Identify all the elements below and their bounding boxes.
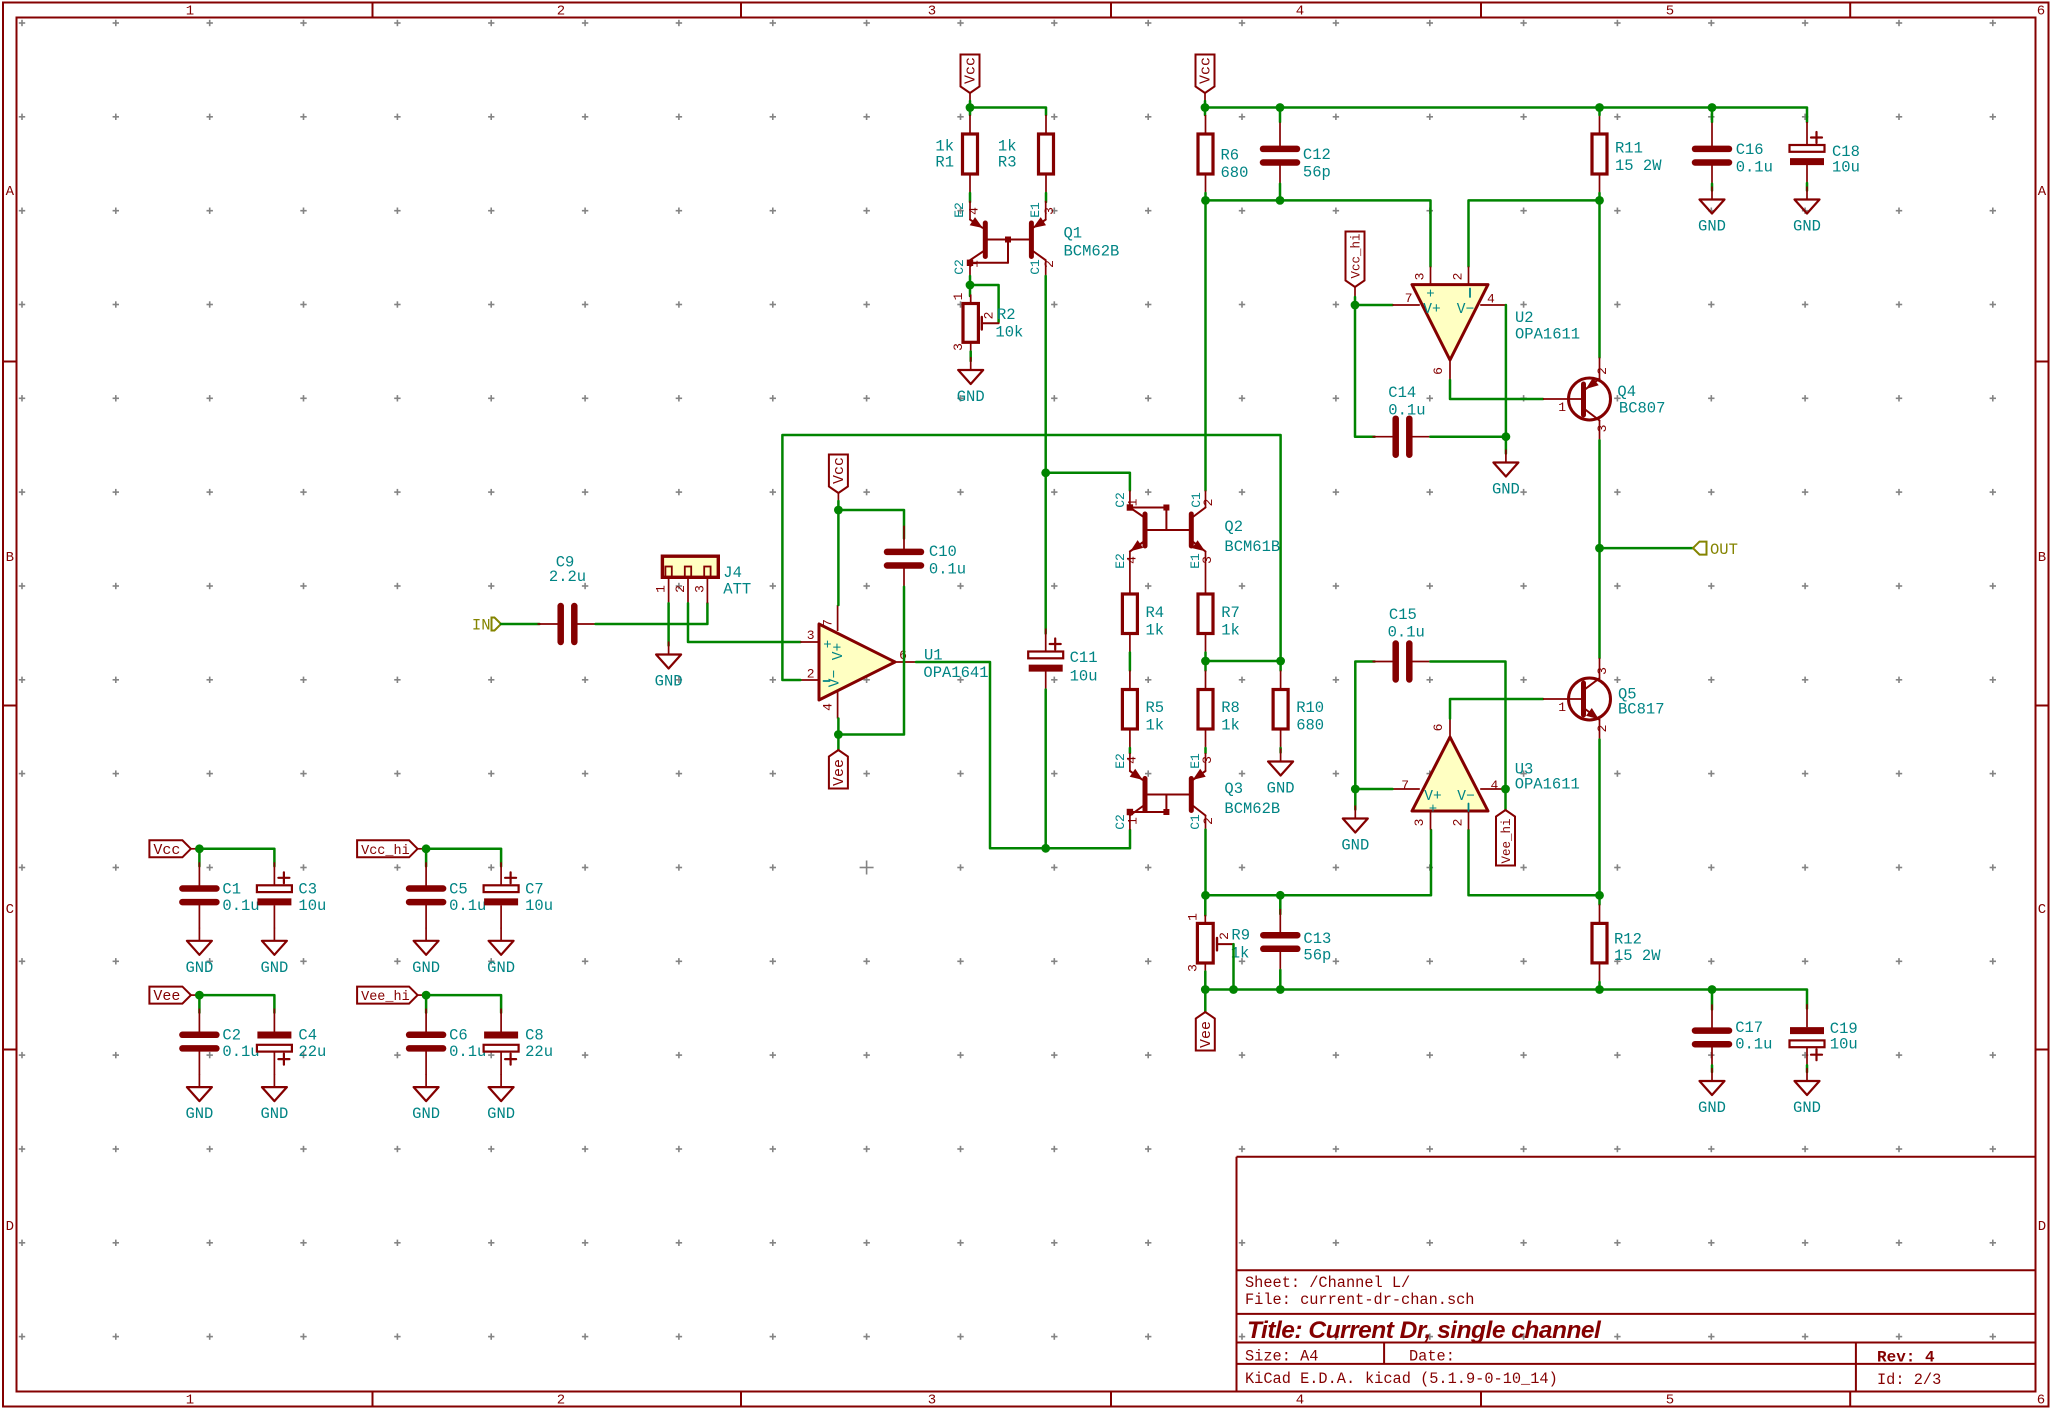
- resistor R8 1k: [1205, 671, 1207, 690]
- svg-text:2: 2: [1595, 725, 1610, 733]
- svg-text:C12: C12: [1303, 146, 1331, 164]
- wire Vcc_hi to U2 pin7: [1355, 297, 1393, 305]
- wire R9 bottom to rail: [1204, 972, 1207, 990]
- power flag Vcc_hi: [1346, 232, 1365, 288]
- wire U2 pin2 to R11 bottom: [1469, 200, 1600, 266]
- transistor Q4 BC807: [1569, 378, 1611, 420]
- svg-text:22u: 22u: [298, 1043, 326, 1061]
- op-amp U1 OPA1641: [819, 624, 895, 700]
- wire C11 bottom to output rail: [1044, 690, 1047, 849]
- node U2 pin7 junction: [1351, 301, 1360, 310]
- svg-text:C1: C1: [222, 880, 241, 898]
- node lower rail at Q3: [1201, 891, 1210, 900]
- wire IN to C9: [501, 623, 540, 626]
- svg-text:C13: C13: [1303, 930, 1331, 948]
- svg-text:2: 2: [1451, 819, 1466, 827]
- svg-text:0.1u: 0.1u: [929, 561, 966, 579]
- node lower rail C13: [1276, 891, 1285, 900]
- svg-text:Vcc: Vcc: [1198, 57, 1215, 84]
- ground below C6: [425, 1074, 427, 1087]
- capacitor C8 22u (polarized): [500, 1009, 502, 1032]
- ground below C18: [1806, 183, 1809, 191]
- svg-text:GND: GND: [1698, 1099, 1726, 1117]
- svg-text:56p: 56p: [1303, 164, 1331, 182]
- svg-text:V−: V−: [1457, 789, 1474, 805]
- svg-text:3: 3: [1413, 273, 1428, 281]
- svg-text:OPA1641: OPA1641: [923, 664, 988, 682]
- svg-text:Vee: Vee: [831, 759, 848, 786]
- svg-text:GND: GND: [260, 959, 288, 977]
- wire R3 to Q1 emitter E1: [1045, 193, 1048, 202]
- svg-text:R8: R8: [1221, 699, 1240, 717]
- node Vee_hi junction: [422, 991, 431, 1000]
- wire R1 to Q1 emitter E2: [969, 193, 972, 202]
- svg-text:1k: 1k: [1221, 717, 1240, 735]
- svg-text:GND: GND: [1341, 837, 1369, 855]
- capacitor C15 0.1u: [1373, 661, 1394, 663]
- wire U2 output to Q4 base: [1450, 380, 1543, 399]
- svg-text:5: 5: [1666, 1393, 1674, 1409]
- svg-text:C11: C11: [1070, 649, 1098, 667]
- wire U3 output to Q5 base: [1450, 699, 1543, 719]
- wire U1 output to C11 column: [916, 662, 1130, 848]
- svg-text:0.1u: 0.1u: [222, 897, 259, 915]
- node Vee junction: [195, 991, 204, 1000]
- svg-text:Q3: Q3: [1224, 780, 1243, 798]
- capacitor C17 0.1u: [1711, 990, 1714, 1010]
- svg-text:4: 4: [1487, 292, 1495, 307]
- power flag Vcc (driver stage): [1196, 55, 1215, 94]
- svg-text:6: 6: [1431, 367, 1446, 375]
- svg-text:15 2W: 15 2W: [1614, 947, 1661, 965]
- svg-text:GND: GND: [655, 673, 683, 691]
- wire R5 to Q3 emitter E2: [1129, 748, 1132, 753]
- capacitor C14 0.1u: [1355, 305, 1375, 437]
- svg-text:Vcc: Vcc: [831, 457, 848, 484]
- svg-text:Vee: Vee: [1198, 1021, 1215, 1048]
- power flag Vcc (U1): [829, 455, 848, 494]
- resistor R11 15 2W: [1599, 115, 1601, 134]
- ground below C16: [1711, 184, 1714, 191]
- svg-text:R7: R7: [1221, 604, 1240, 622]
- power flag Vee (U1): [829, 750, 848, 789]
- svg-text:0.1u: 0.1u: [222, 1043, 259, 1061]
- svg-text:2: 2: [1451, 273, 1466, 281]
- ground below J4: [668, 642, 670, 655]
- wire U1 feedback to inverting input: [782, 435, 1280, 680]
- wire C14 to pin4 node: [1430, 435, 1506, 438]
- ground below C1: [198, 928, 200, 941]
- op-amp U2 OPA1611: [1412, 285, 1488, 360]
- svg-text:C16: C16: [1736, 141, 1764, 159]
- wire C10 bottom to Vee node: [838, 587, 904, 735]
- svg-text:6: 6: [2037, 1393, 2045, 1409]
- capacitor C13 56p: [1279, 895, 1282, 914]
- svg-text:R6: R6: [1221, 147, 1240, 165]
- svg-text:GND: GND: [260, 1105, 288, 1123]
- svg-text:4: 4: [1296, 4, 1304, 20]
- capacitor C2 0.1u: [198, 1009, 200, 1033]
- svg-text:+: +: [1426, 287, 1434, 303]
- svg-text:680: 680: [1296, 717, 1324, 735]
- node bottom rail junctions: [1201, 985, 1210, 994]
- ground below C19: [1806, 1065, 1809, 1072]
- svg-text:2: 2: [673, 585, 688, 593]
- wire R6/C12 bottom rail to U2 pin3: [1204, 193, 1207, 200]
- capacitor C4 22u (polarized): [273, 1009, 275, 1032]
- wire R7 to mid rail: [1204, 653, 1207, 671]
- ground below C7: [500, 928, 502, 941]
- svg-text:3: 3: [928, 1393, 936, 1409]
- svg-text:E2: E2: [952, 202, 967, 218]
- svg-text:Vcc_hi: Vcc_hi: [361, 844, 410, 859]
- svg-text:R12: R12: [1614, 931, 1642, 949]
- wire Q5 emitter down to R12 rail: [1598, 740, 1601, 896]
- svg-text:1: 1: [186, 1393, 194, 1409]
- svg-text:B: B: [6, 550, 14, 566]
- svg-text:1: 1: [654, 585, 669, 593]
- wire U1 pin4 to Vee: [837, 719, 840, 751]
- capacitor C19 10u (polarized): [1806, 1004, 1808, 1027]
- svg-text:56p: 56p: [1303, 947, 1331, 965]
- svg-text:Vee_hi: Vee_hi: [1500, 818, 1514, 863]
- svg-text:Q4: Q4: [1617, 383, 1636, 401]
- svg-text:2.2u: 2.2u: [549, 568, 586, 586]
- svg-text:3: 3: [951, 343, 966, 351]
- wire U2 pin4 down: [1505, 305, 1508, 437]
- svg-text:C4: C4: [298, 1027, 317, 1045]
- transistor Q5 BC817: [1569, 678, 1611, 720]
- svg-text:10u: 10u: [525, 897, 553, 915]
- wire J4 pin1 to GND: [667, 603, 670, 645]
- node U2 pin4 / C14 junction: [1502, 432, 1511, 441]
- svg-text:3: 3: [1042, 207, 1057, 215]
- svg-text:C3: C3: [298, 880, 317, 898]
- svg-text:R9: R9: [1231, 927, 1250, 945]
- svg-text:22u: 22u: [525, 1043, 553, 1061]
- svg-text:Sheet: /Channel L/: Sheet: /Channel L/: [1245, 1274, 1410, 1292]
- svg-text:Vee_hi: Vee_hi: [361, 990, 410, 1005]
- svg-text:A: A: [6, 184, 15, 200]
- node Vcc rail junctions: [1201, 103, 1210, 112]
- resistor R7 1k: [1205, 575, 1207, 594]
- capacitor C18 10u (polarized): [1806, 122, 1808, 145]
- svg-text:Id: 2/3: Id: 2/3: [1877, 1371, 1941, 1389]
- svg-text:C: C: [6, 902, 14, 918]
- svg-text:3: 3: [807, 628, 815, 643]
- wire Vee_hi rail: [423, 995, 501, 1013]
- bottom Vee rail: [1205, 990, 1807, 1009]
- node mid rail R10/feedback: [1276, 657, 1285, 666]
- svg-text:ATT: ATT: [723, 581, 751, 599]
- svg-text:C2: C2: [222, 1027, 241, 1045]
- svg-text:U2: U2: [1515, 309, 1534, 327]
- wire Vcc to U1 pin7 and C10: [837, 501, 840, 605]
- svg-text:3: 3: [1412, 819, 1427, 827]
- node Vcc_hi junction: [422, 844, 431, 853]
- svg-text:0.1u: 0.1u: [1388, 624, 1425, 642]
- node Vcc-R1-R3 junction: [966, 103, 975, 112]
- svg-text:A: A: [2038, 184, 2047, 200]
- svg-text:0.1u: 0.1u: [449, 897, 486, 915]
- wire U3 pin2 to R12 top: [1469, 830, 1600, 895]
- svg-text:1k: 1k: [1221, 622, 1240, 640]
- svg-text:R5: R5: [1146, 699, 1165, 717]
- transistor Q3 (BCM62B dual PNP): [1129, 753, 1131, 771]
- capacitor C6 0.1u: [425, 1009, 427, 1033]
- svg-text:2: 2: [982, 312, 997, 320]
- wire R12 bottom to rail: [1598, 982, 1601, 990]
- svg-text:6: 6: [1431, 724, 1446, 732]
- svg-text:R11: R11: [1615, 140, 1643, 158]
- svg-text:GND: GND: [1793, 1099, 1821, 1117]
- svg-text:BCM62B: BCM62B: [1064, 243, 1120, 261]
- svg-text:C6: C6: [449, 1027, 468, 1045]
- svg-text:C17: C17: [1735, 1019, 1763, 1037]
- svg-text:2: 2: [1217, 932, 1232, 940]
- svg-text:2: 2: [1201, 817, 1216, 825]
- wire R11 top: [1598, 108, 1601, 116]
- svg-text:GND: GND: [1267, 780, 1295, 798]
- wire Q3 C1 down to lower rail: [1204, 830, 1207, 896]
- svg-text:15 2W: 15 2W: [1615, 157, 1662, 175]
- node U3 pin7 junction: [1351, 785, 1360, 794]
- svg-text:1: 1: [1126, 817, 1141, 825]
- svg-text:7: 7: [1401, 778, 1409, 793]
- capacitor C7 10u (polarized): [500, 862, 502, 885]
- svg-text:C5: C5: [449, 880, 468, 898]
- svg-text:IN: IN: [472, 617, 491, 635]
- ground below C8: [500, 1074, 502, 1087]
- wire R6 rail down to Q2 collector C1: [1204, 200, 1207, 490]
- capacitor C12 56p: [1279, 123, 1281, 147]
- svg-text:3: 3: [1186, 964, 1201, 972]
- svg-text:C7: C7: [525, 880, 544, 898]
- svg-text:E1: E1: [1028, 202, 1043, 218]
- power flag Vee_hi (U3): [1496, 810, 1515, 866]
- svg-text:OPA1611: OPA1611: [1515, 326, 1580, 344]
- wire R11 bottom / output rail down: [1598, 193, 1601, 358]
- svg-text:4: 4: [967, 207, 982, 215]
- svg-text:5: 5: [1666, 4, 1674, 20]
- svg-text:0.1u: 0.1u: [1735, 1036, 1772, 1054]
- capacitor C9 2.2u: [538, 623, 559, 625]
- svg-text:3: 3: [1595, 667, 1610, 675]
- svg-text:D: D: [2038, 1219, 2046, 1235]
- resistor R6 680: [1205, 115, 1207, 134]
- ground below C2: [198, 1074, 200, 1087]
- svg-text:Date:: Date:: [1409, 1348, 1455, 1366]
- svg-text:C: C: [2038, 902, 2046, 918]
- ground below R10: [1280, 749, 1282, 762]
- svg-text:R10: R10: [1296, 699, 1324, 717]
- svg-text:2: 2: [1201, 499, 1216, 507]
- wire J4 pin2 to U1 pin3: [688, 603, 800, 642]
- ground below R2: [970, 357, 972, 370]
- node Vcc junction: [195, 844, 204, 853]
- svg-text:C15: C15: [1389, 606, 1417, 624]
- svg-text:C1: C1: [1028, 259, 1043, 275]
- svg-text:BC807: BC807: [1619, 400, 1666, 418]
- svg-text:GND: GND: [487, 959, 515, 977]
- svg-text:GND: GND: [487, 1105, 515, 1123]
- wire U3 pin7 to GND/C15: [1355, 788, 1392, 791]
- svg-text:1: 1: [967, 260, 982, 268]
- svg-text:kicad (5.1.9-0-10_14): kicad (5.1.9-0-10_14): [1365, 1370, 1558, 1388]
- svg-text:10u: 10u: [298, 897, 326, 915]
- resistor R3: [1045, 115, 1047, 134]
- wire C9 to J4 pin3: [596, 603, 708, 624]
- transistor Q2 (BCM61B dual NPN): [1129, 491, 1131, 508]
- node R6 bottom junction: [1201, 196, 1210, 205]
- capacitor C1 0.1u: [198, 862, 200, 886]
- svg-text:V−: V−: [1457, 302, 1474, 318]
- svg-text:6: 6: [2037, 4, 2045, 20]
- power flag Vcc (top bias): [961, 55, 980, 94]
- node R11 bottom junction: [1595, 196, 1604, 205]
- wire Vcc rail: [196, 849, 274, 867]
- svg-text:J4: J4: [723, 564, 742, 582]
- node C2/R2 junction: [966, 281, 975, 290]
- node C11 bottom junction: [1041, 844, 1050, 853]
- svg-text:Q2: Q2: [1224, 518, 1243, 536]
- svg-text:10u: 10u: [1070, 668, 1098, 686]
- svg-text:Vcc_hi: Vcc_hi: [1350, 233, 1364, 278]
- node U3 pin4 junction: [1501, 785, 1510, 794]
- svg-text:R4: R4: [1146, 604, 1165, 622]
- power flag Vee (bottom): [1204, 990, 1207, 1013]
- svg-text:OPA1611: OPA1611: [1515, 776, 1580, 794]
- svg-text:Q1: Q1: [1064, 225, 1083, 243]
- svg-text:2: 2: [557, 1393, 565, 1409]
- svg-text:B: B: [2038, 550, 2046, 566]
- svg-text:4: 4: [1491, 778, 1499, 793]
- svg-text:2: 2: [1595, 367, 1610, 375]
- ground below U3 pin7: [1354, 806, 1356, 819]
- svg-text:BC817: BC817: [1618, 701, 1665, 719]
- wire R10 to GND: [1279, 748, 1282, 753]
- svg-text:R2: R2: [997, 306, 1016, 324]
- svg-text:3: 3: [1200, 556, 1215, 564]
- capacitor C10 0.1u: [903, 526, 905, 550]
- svg-text:R3: R3: [998, 154, 1017, 172]
- wire Vcc to R1/R3: [969, 101, 972, 115]
- node OUT junction: [1595, 544, 1604, 553]
- resistor R10 680: [1280, 671, 1282, 690]
- svg-text:Rev: 4: Rev: 4: [1877, 1349, 1935, 1367]
- svg-text:1: 1: [1558, 700, 1566, 715]
- trimmer R9 1k: [1204, 895, 1207, 915]
- svg-text:1: 1: [186, 4, 194, 20]
- capacitor C5 0.1u: [425, 862, 427, 886]
- svg-text:3: 3: [928, 4, 936, 20]
- svg-text:R1: R1: [935, 154, 954, 172]
- node Vcc/C10 junction: [834, 506, 843, 515]
- trimmer R2 10k: [970, 295, 972, 304]
- svg-text:Size: A4: Size: A4: [1245, 1348, 1318, 1366]
- svg-text:0.1u: 0.1u: [449, 1043, 486, 1061]
- ground below C3: [273, 928, 275, 941]
- connector J4 ATT: [662, 556, 718, 577]
- node mid rail R7/R8: [1201, 657, 1210, 666]
- svg-text:V−: V−: [828, 670, 844, 687]
- svg-text:OUT: OUT: [1710, 541, 1738, 559]
- capacitor C11 10u (polarized): [1044, 276, 1047, 634]
- svg-text:7: 7: [1405, 291, 1413, 306]
- svg-text:1k: 1k: [1146, 717, 1165, 735]
- svg-text:C2: C2: [952, 259, 967, 275]
- svg-text:V+: V+: [1423, 302, 1440, 318]
- svg-text:GND: GND: [185, 959, 213, 977]
- node Vee junction (U1): [834, 730, 843, 739]
- svg-text:C8: C8: [525, 1027, 544, 1045]
- svg-text:Title: Current Dr, single chan: Title: Current Dr, single channel: [1247, 1317, 1602, 1344]
- ground below C4: [273, 1074, 275, 1087]
- svg-text:10u: 10u: [1832, 159, 1860, 177]
- svg-text:Vcc: Vcc: [153, 842, 180, 859]
- svg-text:3: 3: [692, 585, 707, 593]
- svg-text:3: 3: [1200, 756, 1215, 764]
- svg-text:BCM62B: BCM62B: [1224, 800, 1280, 818]
- svg-text:0.1u: 0.1u: [1736, 159, 1773, 177]
- svg-text:10u: 10u: [1830, 1036, 1858, 1054]
- wire Vcc_hi rail: [423, 849, 501, 867]
- svg-text:Vee: Vee: [153, 988, 180, 1005]
- svg-text:GND: GND: [412, 1105, 440, 1123]
- svg-text:10k: 10k: [995, 324, 1023, 342]
- wire OUT node down to Q5: [1598, 548, 1601, 658]
- wire Vee rail: [196, 995, 274, 1013]
- svg-text:1: 1: [1126, 498, 1141, 506]
- svg-text:C14: C14: [1388, 384, 1416, 402]
- node Q1-C1 / Q2-C2 junction: [1041, 468, 1050, 477]
- svg-text:+: +: [1429, 802, 1437, 818]
- op-amp U3 OPA1611: [1412, 737, 1488, 811]
- node R12 top junction: [1595, 891, 1604, 900]
- wire C15 to U3 pin4: [1430, 662, 1505, 790]
- svg-text:GND: GND: [1698, 218, 1726, 236]
- svg-text:4: 4: [821, 703, 836, 711]
- svg-text:1: 1: [1558, 400, 1566, 415]
- svg-text:C10: C10: [929, 543, 957, 561]
- resistor R5 1k: [1129, 671, 1131, 690]
- capacitor C3 10u (polarized): [273, 862, 275, 885]
- resistor R1: [969, 115, 971, 134]
- wire R4 to R5: [1129, 653, 1132, 671]
- power flag Vcc (decoupling): [149, 840, 191, 857]
- wire C12 top branch: [1279, 108, 1282, 123]
- svg-text:0.1u: 0.1u: [1388, 402, 1425, 420]
- wire mid rail to R10: [1206, 661, 1281, 671]
- svg-text:3: 3: [1595, 425, 1610, 433]
- svg-text:4: 4: [1296, 1393, 1304, 1409]
- svg-text:4: 4: [1125, 756, 1140, 764]
- svg-text:1: 1: [1186, 913, 1201, 921]
- svg-text:7: 7: [821, 619, 836, 627]
- wire C13 bottom to rail: [1279, 970, 1282, 990]
- svg-text:680: 680: [1221, 164, 1249, 182]
- svg-text:GND: GND: [957, 388, 985, 406]
- svg-text:1k: 1k: [1146, 622, 1165, 640]
- resistor R12 15 2W: [1598, 895, 1601, 904]
- wire R2 to GND: [969, 352, 972, 362]
- wire lower rail to U3 pin3: [1206, 830, 1432, 895]
- transistor Q1 (BCM62B dual PNP): [969, 201, 971, 220]
- wire Q4 collector to OUT node: [1598, 440, 1601, 548]
- svg-text:Vcc: Vcc: [963, 57, 980, 84]
- wire Q1-C2 to R2: [969, 276, 972, 296]
- svg-text:2: 2: [807, 667, 815, 682]
